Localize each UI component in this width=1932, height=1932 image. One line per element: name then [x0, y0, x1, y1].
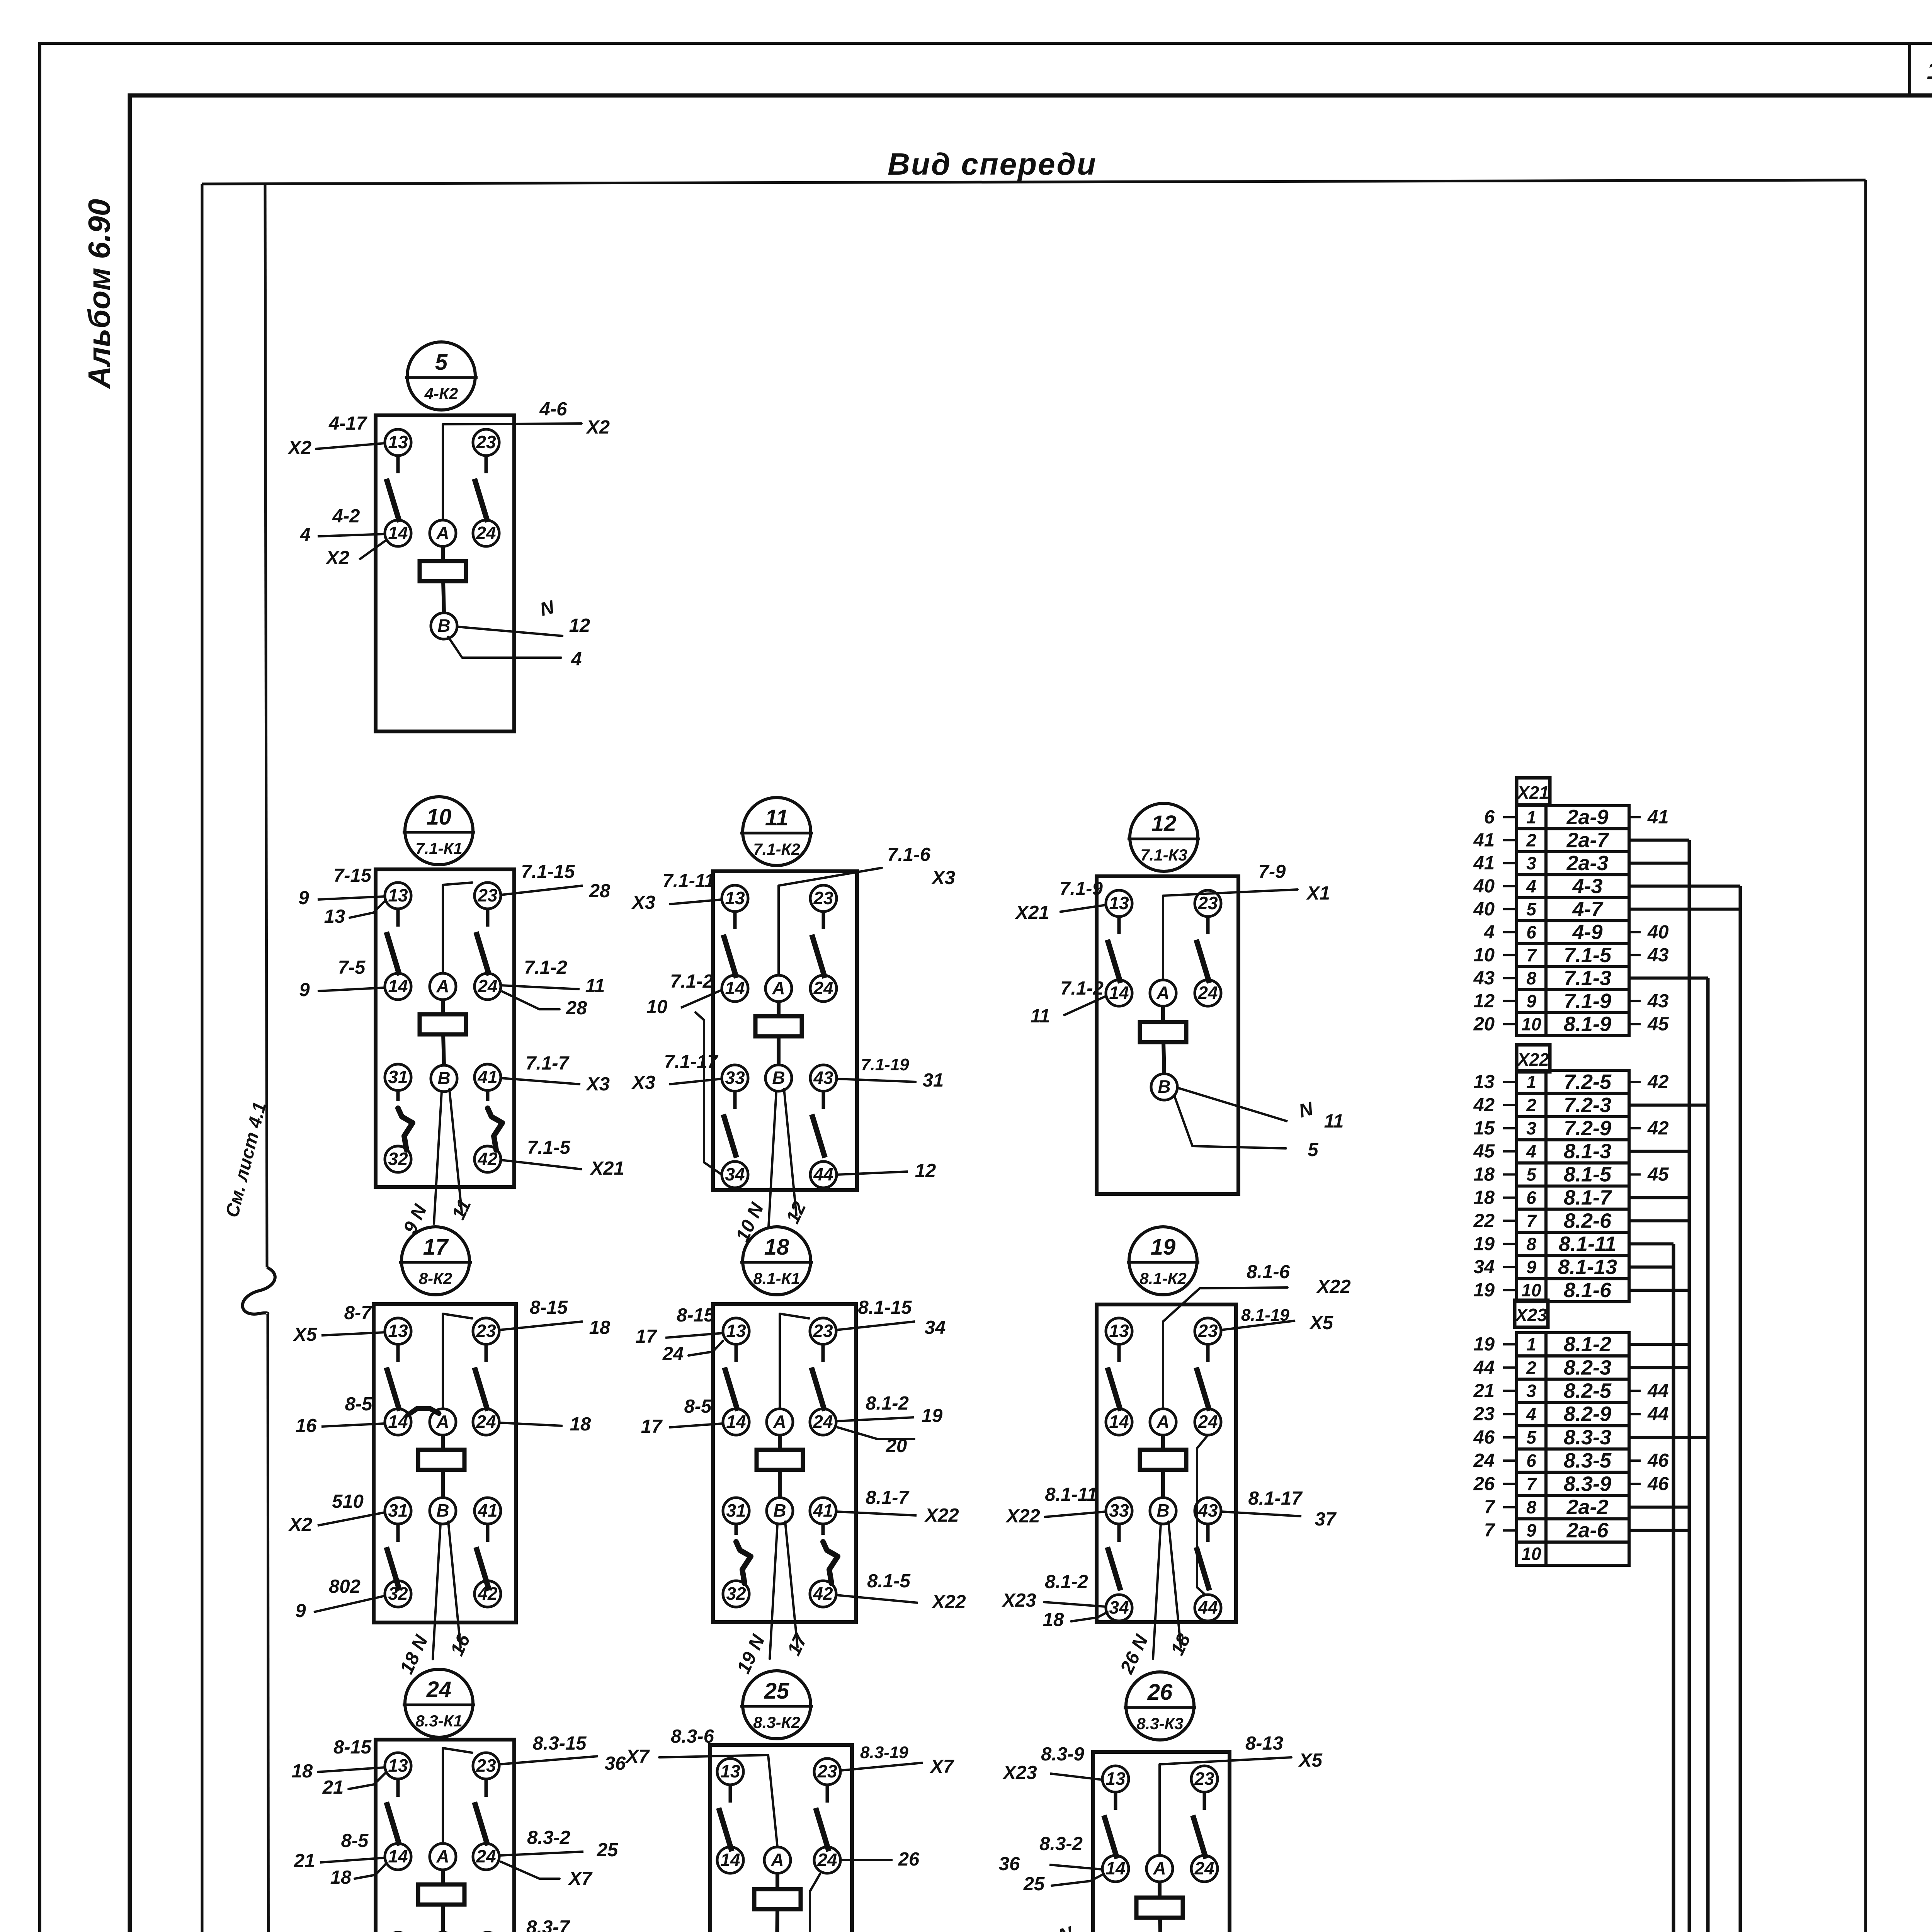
svg-text:5: 5: [1526, 1165, 1537, 1185]
pin 24: [473, 1844, 499, 1870]
wire 8.3-19 X7 from pin 23: [840, 1763, 923, 1770]
terminal X23 row 5 8.3-3: [1517, 1426, 1546, 1449]
wire X22.8 to bus 1: [1629, 1242, 1673, 1245]
wire 44 to X23.2: [1503, 1366, 1517, 1369]
wire 21 to pin 13: [349, 1773, 386, 1789]
svg-text:43: 43: [1473, 968, 1495, 988]
bus wire 3: [1706, 978, 1710, 1932]
wire 19 to X23.1: [1503, 1343, 1517, 1345]
svg-text:24: 24: [813, 978, 833, 998]
svg-text:8.2-3: 8.2-3: [1564, 1356, 1611, 1379]
wire 45 to X22.4: [1503, 1150, 1517, 1153]
wires from B going down: [1153, 1524, 1161, 1659]
svg-text:7.1-15: 7.1-15: [521, 861, 575, 882]
svg-text:21: 21: [322, 1777, 344, 1798]
svg-text:X2: X2: [325, 548, 349, 568]
svg-text:13: 13: [1473, 1071, 1495, 1092]
svg-text:8.3-К2: 8.3-К2: [753, 1713, 800, 1731]
svg-text:34: 34: [1473, 1257, 1495, 1277]
svg-text:19: 19: [1473, 1334, 1495, 1355]
pin В: [765, 1065, 792, 1091]
pin А: [430, 1409, 456, 1435]
svg-text:8.1-6: 8.1-6: [1564, 1279, 1612, 1302]
svg-text:2: 2: [1526, 830, 1536, 850]
internal wire pin 24 to pin 44: [810, 1874, 820, 1932]
wire 4-6 from A to X2: [443, 423, 582, 520]
svg-text:7.1-9: 7.1-9: [1564, 990, 1611, 1013]
svg-text:X2: X2: [585, 417, 610, 438]
pin А: [765, 975, 792, 1002]
svg-text:3: 3: [1526, 1118, 1536, 1138]
contact: [396, 1090, 400, 1101]
svg-text:7.1-6: 7.1-6: [887, 844, 930, 865]
svg-text:14: 14: [1109, 1412, 1129, 1432]
wire 20 from pin 24: [838, 1427, 914, 1439]
svg-text:8.3-7: 8.3-7: [526, 1917, 570, 1932]
wire X23.2 to bus 2: [1629, 1366, 1689, 1369]
svg-text:44: 44: [1647, 1381, 1669, 1401]
pin 14: [717, 1847, 743, 1873]
wire 7.1-5 X21 from pin 42: [501, 1160, 582, 1169]
svg-text:6: 6: [1526, 1451, 1536, 1471]
svg-text:X21: X21: [1516, 782, 1549, 803]
pin А: [430, 1844, 456, 1870]
svg-text:X5: X5: [293, 1324, 317, 1345]
wire 8.1-2 19 from pin 24: [836, 1417, 914, 1421]
coil: [757, 1450, 803, 1470]
svg-text:X21: X21: [1014, 902, 1049, 923]
svg-text:4-6: 4-6: [539, 399, 568, 420]
pin 13: [1102, 1766, 1129, 1792]
wire 21 8-5 to pin 14: [320, 1858, 385, 1862]
svg-text:36: 36: [605, 1753, 626, 1774]
wires from B going down: [434, 1092, 442, 1224]
svg-text:12: 12: [1927, 57, 1932, 85]
terminal block X23 header: [1515, 1300, 1548, 1327]
pin 13: [722, 885, 748, 912]
svg-text:10: 10: [646, 997, 668, 1017]
wire 40 to X21.4: [1503, 885, 1517, 887]
svg-text:8.1-11: 8.1-11: [1559, 1232, 1616, 1255]
terminal X22 row 3 7.2-9: [1517, 1117, 1546, 1140]
bus wire 4: [1739, 886, 1742, 1932]
contact: [1206, 1344, 1210, 1362]
svg-text:А: А: [773, 1412, 786, 1432]
wire X23 8.1-2 to pin 34: [1043, 1602, 1106, 1607]
bus wire 1: [1672, 1244, 1675, 1932]
svg-text:24: 24: [426, 1677, 452, 1702]
wire 41 from X21.1: [1629, 816, 1641, 818]
svg-text:42: 42: [1647, 1071, 1669, 1092]
pin А: [1150, 1409, 1176, 1435]
svg-text:24: 24: [662, 1344, 684, 1364]
svg-text:X23: X23: [1514, 1305, 1547, 1325]
coil leads: [1158, 1882, 1162, 1898]
svg-text:44: 44: [1473, 1357, 1495, 1378]
wire N 11 from B: [1177, 1088, 1287, 1121]
terminal X23 row 10: [1517, 1542, 1546, 1565]
svg-text:3: 3: [1526, 853, 1536, 873]
terminal X21 row 6 4-9: [1517, 921, 1546, 944]
wire X2 to pin 14: [359, 539, 387, 560]
svg-text:24: 24: [476, 523, 496, 543]
svg-text:34: 34: [725, 1164, 745, 1184]
wire 18 from pin 24: [499, 1423, 563, 1426]
svg-text:37: 37: [1315, 1509, 1337, 1530]
svg-text:8-5: 8-5: [684, 1396, 712, 1417]
svg-text:18: 18: [1043, 1609, 1064, 1630]
wire X22.7 to bus 2: [1629, 1219, 1689, 1222]
svg-text:6: 6: [1484, 807, 1495, 828]
wire 36 8.3-2 to pin 14: [1049, 1865, 1102, 1869]
svg-text:18: 18: [1473, 1187, 1495, 1208]
svg-text:X3: X3: [631, 1072, 655, 1093]
wire 25 to pin 14: [1052, 1874, 1104, 1886]
coil: [420, 561, 466, 581]
svg-text:40: 40: [1473, 899, 1495, 920]
svg-text:X3: X3: [631, 892, 655, 913]
contact: [1117, 1344, 1121, 1362]
svg-text:X7: X7: [625, 1746, 650, 1767]
pin В: [431, 613, 457, 639]
svg-text:24: 24: [1197, 1412, 1218, 1432]
svg-text:2а-9: 2а-9: [1566, 806, 1608, 829]
relay 12 body: [1097, 876, 1238, 1194]
wire 8.3-2 25 from pin 24: [499, 1852, 583, 1855]
svg-text:X22: X22: [1516, 1049, 1549, 1070]
pin 44: [810, 1162, 837, 1188]
pin 24: [1195, 980, 1221, 1006]
svg-text:4: 4: [1526, 876, 1536, 896]
svg-text:8-5: 8-5: [345, 1394, 373, 1415]
pin 41: [474, 1064, 501, 1090]
relay K17 group: [288, 1227, 611, 1677]
terminal X22 row 1 7.2-5: [1517, 1070, 1546, 1094]
svg-text:31: 31: [726, 1500, 746, 1520]
svg-text:20: 20: [886, 1435, 907, 1456]
svg-text:5: 5: [1526, 1427, 1537, 1447]
wire 7 to X23.8: [1503, 1506, 1517, 1509]
relay 17 body: [374, 1304, 516, 1622]
wire 8.1-6 X22 from A: [1163, 1287, 1287, 1409]
pin 23: [1195, 1318, 1221, 1344]
pin 24: [810, 975, 837, 1002]
svg-text:26: 26: [1473, 1473, 1495, 1494]
svg-text:28: 28: [566, 998, 587, 1019]
pin 23: [1195, 890, 1221, 917]
wire 40 from X21.6: [1629, 931, 1641, 933]
contact: [396, 1344, 400, 1362]
contact: [821, 1344, 825, 1362]
coil: [1136, 1898, 1183, 1918]
svg-text:19: 19: [922, 1405, 943, 1426]
svg-text:8-5: 8-5: [341, 1830, 369, 1851]
svg-text:8.3-2: 8.3-2: [527, 1827, 570, 1848]
svg-text:18: 18: [330, 1867, 352, 1888]
wire 22 to X22.7: [1503, 1219, 1517, 1222]
wire X2 510 to pin 31: [318, 1512, 385, 1526]
terminal X22 row 9 8.1-13: [1517, 1255, 1546, 1279]
wire 8.3-15 36 from pin 23: [499, 1756, 598, 1764]
svg-text:17: 17: [423, 1235, 449, 1260]
svg-text:20: 20: [1473, 1014, 1495, 1034]
pin 34: [1106, 1595, 1132, 1621]
coil: [755, 1016, 802, 1036]
svg-text:14: 14: [720, 1850, 740, 1870]
contact: [1206, 917, 1210, 934]
break symbol on panel left edge: [243, 1267, 275, 1314]
wire 19 to X22.8: [1503, 1243, 1517, 1245]
svg-text:7.1-3: 7.1-3: [1564, 966, 1611, 990]
wire 18 to pin 34: [1071, 1612, 1107, 1621]
relay 24 body: [376, 1740, 514, 1932]
svg-text:24: 24: [1473, 1450, 1495, 1471]
svg-text:8-15: 8-15: [333, 1737, 372, 1758]
coil leads: [777, 1002, 781, 1016]
svg-text:9: 9: [295, 1600, 306, 1621]
svg-text:7.2-5: 7.2-5: [1564, 1070, 1612, 1094]
wire X22 8.1-11 to pin 33: [1044, 1512, 1106, 1517]
svg-text:23: 23: [1197, 893, 1218, 913]
contact: [822, 912, 825, 929]
svg-text:40: 40: [1473, 876, 1495, 896]
pin 33: [722, 1065, 748, 1091]
coil: [418, 1450, 464, 1470]
svg-text:1: 1: [1526, 1072, 1536, 1092]
terminal X22 row 8 8.1-11: [1517, 1232, 1546, 1255]
svg-text:В: В: [1158, 1077, 1170, 1097]
pin А: [430, 520, 456, 546]
pin 34: [722, 1162, 748, 1188]
svg-text:8.1-К2: 8.1-К2: [1139, 1269, 1187, 1287]
relay designator 19 / 8.1-К2: [1129, 1227, 1197, 1295]
wire 46 from X23.6: [1629, 1459, 1641, 1462]
wire X3 7.1-11 to pin 13: [669, 900, 722, 904]
svg-text:7.2-3: 7.2-3: [1564, 1094, 1611, 1117]
wire 17 8-15 to pin 13: [665, 1333, 723, 1338]
svg-text:8.1-6: 8.1-6: [1247, 1262, 1290, 1282]
wire 13 to pin 13: [350, 901, 385, 918]
wire 5 from B: [1175, 1097, 1286, 1148]
pin А: [1150, 980, 1176, 1006]
coil leads: [776, 1873, 779, 1889]
wire 8.1-17 37 from pin 43: [1221, 1512, 1301, 1516]
svg-text:25: 25: [1023, 1874, 1045, 1895]
pin 24: [474, 973, 501, 1000]
wire 4-17 X2 to pin 13: [315, 443, 385, 449]
svg-text:36: 36: [999, 1854, 1020, 1874]
pin 32: [723, 1581, 749, 1607]
coil leads: [441, 1870, 445, 1884]
coil leads: [441, 546, 445, 561]
svg-text:9: 9: [1526, 991, 1536, 1011]
pin 14: [385, 973, 411, 1000]
pin 31: [723, 1498, 749, 1524]
svg-text:34: 34: [925, 1317, 946, 1338]
pin 14: [1102, 1855, 1129, 1882]
contact: [485, 1344, 488, 1362]
pin 14: [385, 1409, 411, 1435]
contact: [1206, 1524, 1210, 1542]
svg-text:7-15: 7-15: [333, 865, 372, 886]
pin 24: [814, 1847, 840, 1873]
wire X23.8 to bus 2: [1629, 1506, 1689, 1509]
svg-text:12: 12: [1151, 811, 1177, 836]
wire 9 802 to pin 32: [314, 1596, 385, 1612]
wire 42 from X22.3: [1629, 1127, 1641, 1129]
contact: [822, 1091, 825, 1109]
svg-text:16: 16: [296, 1415, 317, 1436]
relay K24 group: [292, 1669, 626, 1932]
svg-text:13: 13: [324, 906, 345, 927]
wire 8-13 X5 from A: [1160, 1757, 1291, 1855]
wire X21.2 to bus 2: [1629, 838, 1689, 842]
contact: [396, 1779, 400, 1797]
svg-text:31: 31: [923, 1070, 944, 1091]
svg-text:11: 11: [1031, 1006, 1050, 1027]
terminal X22 row 7 8.2-6: [1517, 1209, 1546, 1232]
svg-text:41: 41: [1473, 853, 1495, 874]
terminal X21 row 2 2а-7: [1517, 829, 1546, 852]
wire X21.5 to bus 4: [1629, 908, 1740, 911]
terminal X21 row 7 7.1-5: [1517, 944, 1546, 967]
svg-text:8.1-2: 8.1-2: [1564, 1333, 1611, 1356]
wire 11 7.1-2 to pin 14: [1063, 996, 1106, 1015]
svg-text:42: 42: [813, 1583, 833, 1604]
wire X22.4 to bus 2: [1629, 1150, 1689, 1153]
svg-text:7.1-2: 7.1-2: [670, 971, 713, 992]
svg-text:7.1-5: 7.1-5: [527, 1137, 570, 1158]
wire 4-2 to pin 14: [318, 534, 385, 536]
svg-text:7.1-11: 7.1-11: [662, 871, 714, 891]
wire 10 to X21.7: [1503, 954, 1517, 956]
svg-text:8.1-15: 8.1-15: [858, 1297, 912, 1318]
terminal X23 row 6 8.3-5: [1517, 1449, 1546, 1472]
svg-text:23: 23: [813, 888, 833, 908]
svg-text:11: 11: [1324, 1111, 1344, 1132]
svg-text:24: 24: [1197, 983, 1218, 1003]
svg-text:8.3-9: 8.3-9: [1564, 1472, 1611, 1495]
svg-text:8-15: 8-15: [530, 1297, 568, 1318]
wire X23 8.3-9 to pin 13: [1050, 1774, 1102, 1780]
svg-text:26: 26: [898, 1849, 920, 1870]
svg-text:4-2: 4-2: [332, 506, 360, 527]
pin 24: [473, 1409, 499, 1435]
wire X3 7.1-17 to pin 33: [669, 1079, 722, 1084]
wire X5 8-7 to pin 13: [321, 1332, 385, 1335]
svg-text:23: 23: [477, 885, 498, 905]
svg-text:X22: X22: [931, 1592, 966, 1612]
terminal X22 row 5 8.1-5: [1517, 1163, 1546, 1186]
relay 26 body: [1093, 1752, 1230, 1932]
svg-text:45: 45: [1473, 1141, 1495, 1162]
svg-text:14: 14: [1105, 1858, 1125, 1878]
svg-text:26: 26: [1147, 1680, 1173, 1705]
svg-text:7: 7: [1484, 1520, 1496, 1541]
wire 41 to X21.2: [1503, 839, 1517, 841]
wire 7-9 X1 from A: [1163, 889, 1298, 980]
wire 9 7-5 to pin 14: [318, 988, 385, 991]
svg-text:34: 34: [1109, 1597, 1129, 1617]
svg-text:8.3-11: 8.3-11: [655, 1929, 707, 1932]
wire X23.5 to bus 3: [1629, 1436, 1708, 1439]
pin 33: [1106, 1498, 1132, 1524]
svg-text:18: 18: [764, 1235, 789, 1260]
svg-text:8.1-К1: 8.1-К1: [753, 1269, 800, 1287]
svg-text:23: 23: [1473, 1404, 1495, 1425]
wire X7 8.3-6 to A: [659, 1755, 777, 1847]
wire from A up to 23 node: [443, 883, 472, 973]
svg-text:5: 5: [435, 350, 448, 375]
pin 13: [385, 1753, 411, 1779]
svg-text:4-К2: 4-К2: [424, 384, 458, 403]
pin 42: [474, 1146, 501, 1172]
svg-text:А: А: [1156, 1412, 1169, 1432]
svg-text:41: 41: [1473, 830, 1495, 850]
svg-text:8-13: 8-13: [1245, 1733, 1283, 1754]
svg-text:8.3-2: 8.3-2: [1039, 1833, 1083, 1854]
pin А: [764, 1847, 791, 1873]
svg-text:7: 7: [1526, 1211, 1537, 1231]
svg-text:В: В: [437, 1068, 450, 1088]
svg-text:13: 13: [388, 885, 408, 905]
svg-text:Вид спереди: Вид спереди: [888, 147, 1097, 181]
pin 23: [810, 885, 837, 912]
svg-text:А: А: [772, 978, 785, 998]
svg-text:13: 13: [1105, 1769, 1126, 1789]
terminal X23 row 2 8.2-3: [1517, 1356, 1546, 1379]
svg-text:17: 17: [641, 1416, 663, 1437]
svg-text:13: 13: [726, 1321, 746, 1341]
relay 5 body: [376, 415, 514, 731]
coil: [1140, 1022, 1186, 1042]
relay 18 body: [713, 1304, 856, 1622]
svg-text:9: 9: [299, 980, 310, 1000]
svg-text:18: 18: [292, 1761, 313, 1782]
relay 19 body: [1097, 1304, 1236, 1622]
svg-text:4: 4: [571, 649, 582, 670]
svg-text:7.2-9: 7.2-9: [1564, 1117, 1611, 1140]
svg-text:13: 13: [388, 432, 408, 452]
wire 46 to X23.5: [1503, 1436, 1517, 1439]
wire X23.9 to bus 2: [1629, 1529, 1689, 1532]
svg-text:8.1-7: 8.1-7: [1564, 1186, 1612, 1209]
svg-text:4-7: 4-7: [1572, 898, 1604, 921]
svg-text:23: 23: [817, 1761, 837, 1781]
wire 8.1-15 34 from pin 23: [836, 1321, 915, 1330]
wire from A up: [780, 1314, 809, 1409]
svg-text:13: 13: [388, 1321, 408, 1341]
wire 26 to X23.7: [1503, 1483, 1517, 1485]
contact: [1117, 917, 1121, 934]
svg-text:19: 19: [1473, 1280, 1495, 1301]
relay 10 body: [376, 869, 514, 1187]
svg-text:8.1-11: 8.1-11: [1045, 1484, 1097, 1505]
relay designator 5 / 4-К2: [407, 342, 475, 410]
terminal X21 row 1 2а-9: [1517, 806, 1546, 829]
svg-text:23: 23: [476, 1321, 496, 1341]
relay 25 body: [710, 1745, 852, 1932]
wire 21 to X23.3: [1503, 1390, 1517, 1392]
pin В: [1151, 1074, 1177, 1100]
svg-text:41: 41: [813, 1500, 833, 1520]
pin 13: [1106, 1318, 1132, 1344]
svg-text:24: 24: [817, 1850, 837, 1870]
svg-text:802: 802: [329, 1576, 361, 1597]
pin 41: [474, 1498, 501, 1524]
wire 42 to X22.2: [1503, 1104, 1517, 1106]
pin 41: [810, 1498, 836, 1524]
